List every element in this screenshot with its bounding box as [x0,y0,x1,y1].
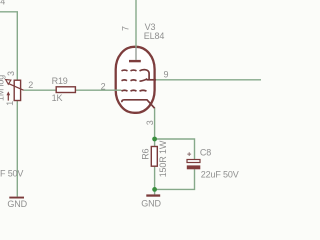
svg-text:GND: GND [141,199,161,209]
potentiometer wiper arrow line [9,84,24,91]
svg-text:R6: R6 [140,148,150,159]
tube V3 EL84 envelope [116,47,155,113]
svg-text:2: 2 [28,80,33,90]
capacitor C8 bottom plate [187,165,201,169]
tube g2 link to pin 9 [147,79,157,81]
svg-text:4: 4 [0,0,5,6]
svg-text:2: 2 [101,81,106,91]
wire pin 9 to right edge [156,79,261,81]
wire pot pin 2 to R19 [24,89,57,91]
potentiometer 1M log body [14,80,20,100]
wire R6 bottom to GND [154,166,156,194]
wire cathode pin 3 down to R6 [154,108,156,147]
resistor R6 [151,147,157,167]
svg-text:1: 1 [5,101,15,106]
wire net from left edge to pot pin 3 [0,12,17,80]
potentiometer adjust arrow [7,95,9,101]
wire anode pin 7 from top edge [135,0,137,48]
svg-text:9: 9 [164,70,169,80]
ground symbol middle [146,194,160,196]
svg-text:150R 1W: 150R 1W [158,140,168,177]
tube grid row g2 (middle dashed row) [122,79,128,82]
wire R19 to tube grid pin 2 [75,89,121,91]
svg-text:3: 3 [145,120,155,125]
svg-text:3: 3 [6,71,16,76]
wire pot pin 1 to GND [16,101,18,197]
tube cathode [122,100,155,108]
wire C8 bottom back to R6 bottom [155,169,195,189]
svg-text:C8: C8 [200,148,211,158]
wire branch to C8 top [155,139,195,160]
resistor R19 [56,87,75,93]
potentiometer wiper arrowhead [6,80,11,85]
tube grid row g1 (bottom dashed row) [122,89,128,92]
svg-text:F 50V: F 50V [0,168,23,178]
junction node at R6 bottom [152,187,157,192]
svg-text:22uF 50V: 22uF 50V [201,169,239,179]
capacitor C8 plus mark [187,152,191,156]
tube plate (anode) bar [129,60,141,62]
svg-text:1M log: 1M log [0,75,5,101]
svg-text:R19: R19 [52,76,68,86]
svg-text:7: 7 [120,26,130,31]
svg-text:1K: 1K [52,93,63,103]
svg-text:GND: GND [7,199,27,209]
anode pin lead inside envelope [135,47,137,60]
tube grid row g3 (top dashed row) [122,69,128,72]
junction node at R6 top [152,137,157,142]
capacitor C8 top plate [187,160,200,163]
ground symbol left [9,197,24,199]
svg-text:EL84: EL84 [144,31,165,41]
